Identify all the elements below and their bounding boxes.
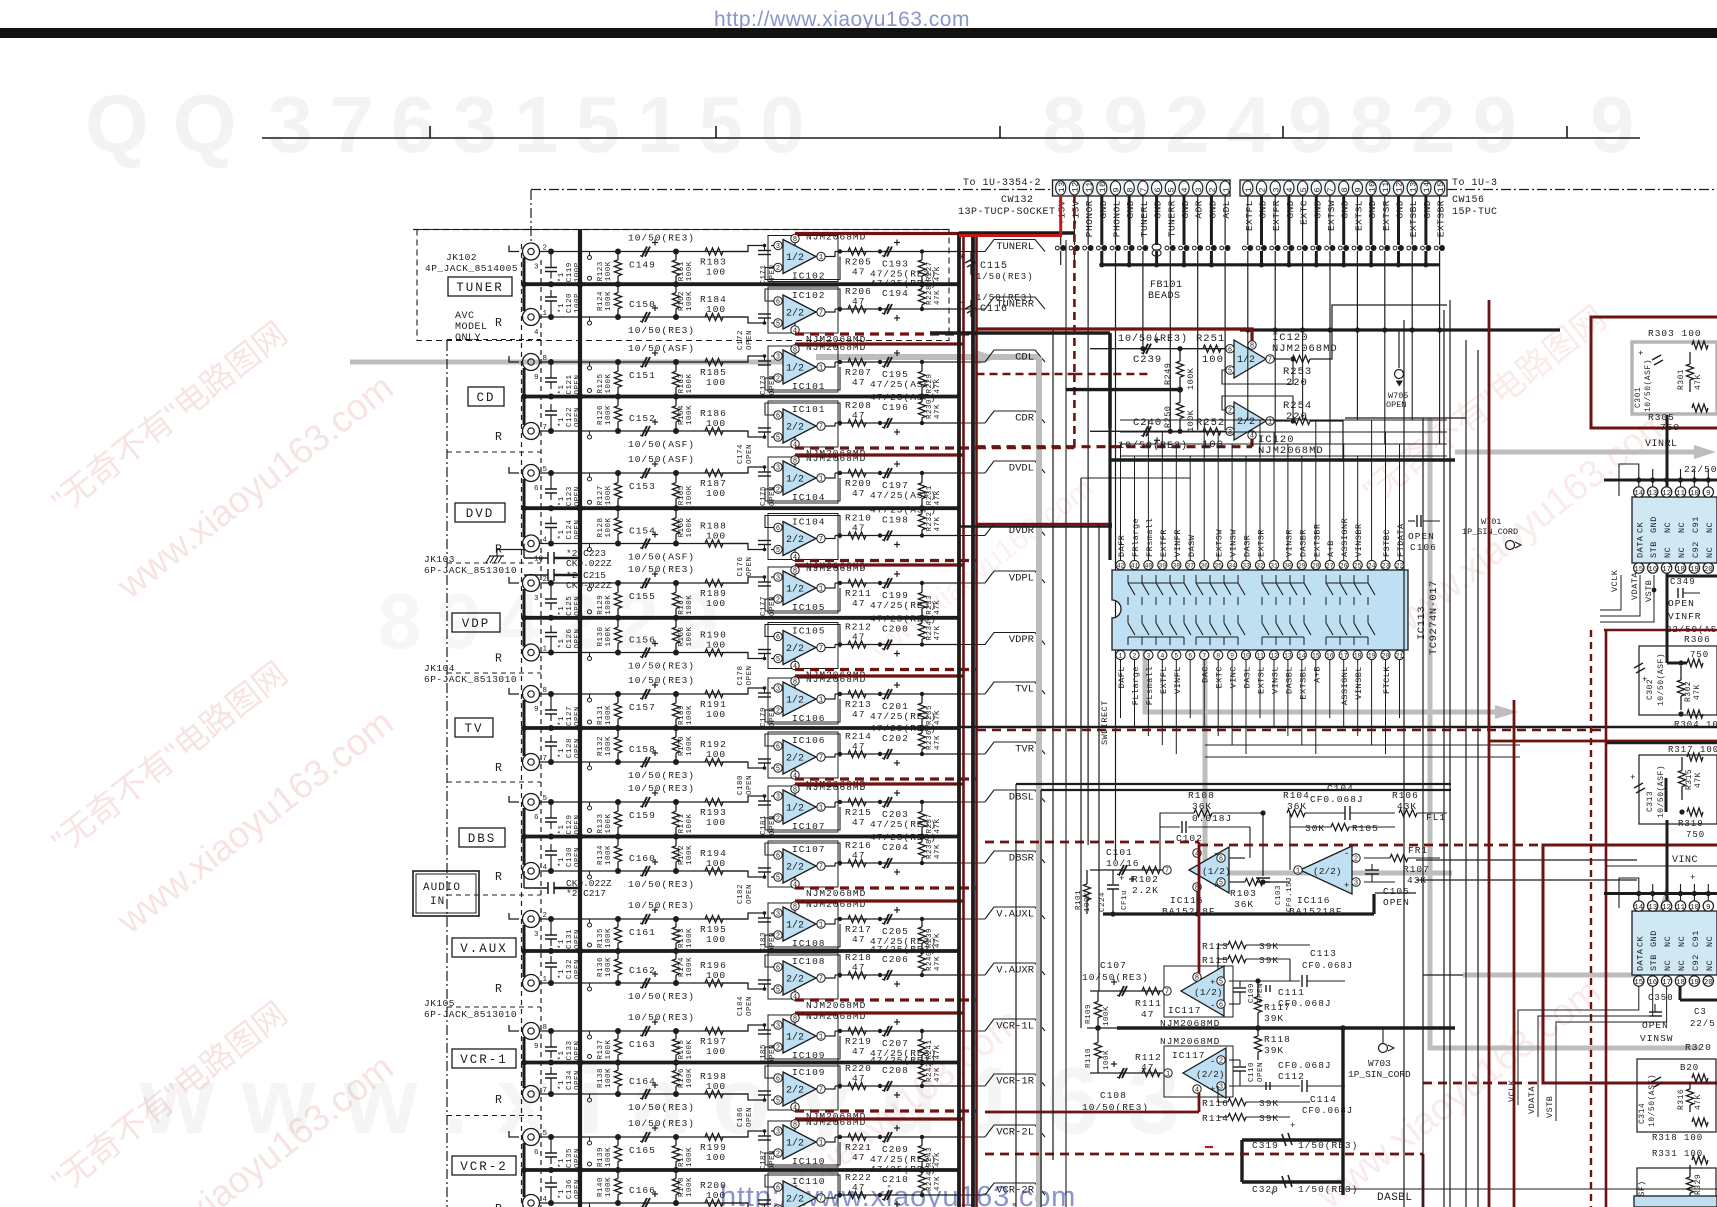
resistor R188 100 (705, 540, 723, 547)
wire feedback (765, 1066, 840, 1089)
node rIC1 pin 14 CK (1634, 487, 1644, 497)
svg-text:2/2: 2/2 (1237, 416, 1255, 428)
node IC113 pin 38 VINFR (1172, 560, 1181, 569)
wire rIC1 left loop (1619, 464, 1639, 496)
svg-text:36K: 36K (1287, 801, 1307, 812)
node CW156 pin 6 GND (1311, 181, 1321, 195)
capacitor C184 OPEN (758, 983, 771, 985)
svg-text:10/50(ASF): 10/50(ASF) (628, 343, 695, 354)
svg-text:C134: C134 (566, 1070, 574, 1090)
wire gray highlight IC113 path (1145, 620, 1495, 712)
resistor R301 47K (1689, 352, 1691, 364)
svg-text:C154: C154 (629, 526, 656, 537)
node CW156 pin 5 EXTC (1298, 181, 1308, 195)
svg-text:C160: C160 (629, 853, 656, 864)
wire supply rail maroon (795, 1011, 964, 1014)
capacitor C205 (884, 914, 889, 924)
resistor R109 100K (1097, 991, 1099, 1002)
svg-text:10/50(RE3): 10/50(RE3) (628, 879, 695, 890)
svg-text:8: 8 (793, 1016, 797, 1024)
svg-text:C314: C314 (1638, 1103, 1647, 1124)
svg-text:1/2: 1/2 (786, 1032, 804, 1044)
svg-text:18: 18 (1354, 653, 1362, 660)
svg-text:-: - (1344, 849, 1349, 859)
resistor R318 100 (1692, 1118, 1708, 1126)
node rIC2 pin 11 NC (1675, 901, 1685, 911)
svg-text:C133: C133 (566, 1040, 574, 1060)
svg-text:3: 3 (1194, 187, 1204, 193)
svg-text:R242: R242 (926, 1062, 934, 1082)
resistor R164 100K (675, 397, 677, 406)
svg-text:14: 14 (1634, 490, 1644, 498)
node net VCR-1L (959, 1030, 985, 1032)
svg-text:7: 7 (819, 310, 823, 318)
IC right volume 2 (1632, 911, 1717, 975)
svg-text:2/2: 2/2 (786, 753, 804, 765)
svg-text:FLsmall: FLsmall (1145, 666, 1155, 705)
wire feedback (765, 1175, 840, 1198)
svg-text:R133: R133 (597, 813, 605, 833)
wire output (830, 1137, 835, 1142)
wire jack ground (523, 700, 526, 756)
wire tunerr bus right (930, 331, 1110, 335)
resistor R240 47K (921, 951, 923, 955)
node IC113 pin 23 FSTBC (1381, 560, 1390, 569)
svg-text:6P-JACK_8513010: 6P-JACK_8513010 (424, 565, 517, 576)
svg-text:DATA: DATA (1635, 535, 1645, 558)
resistor R205 47 (848, 248, 866, 255)
svg-text:TUNERL: TUNERL (1139, 200, 1150, 237)
svg-text:47: 47 (852, 488, 865, 499)
svg-text:R128: R128 (597, 517, 605, 537)
jack DVD R (523, 535, 540, 552)
wire out2 right (1310, 421, 1343, 462)
svg-text:15: 15 (1312, 653, 1320, 660)
svg-text:NC: NC (1677, 522, 1687, 533)
node label V.AUX (452, 938, 516, 957)
wire supply rail maroon (795, 342, 964, 345)
svg-text:BEADS: BEADS (1148, 291, 1181, 302)
svg-text:2/2: 2/2 (786, 422, 804, 434)
svg-text:C129: C129 (566, 814, 574, 834)
svg-text:SWDIRECT: SWDIRECT (1100, 700, 1110, 745)
capacitor C105 OPEN (1371, 864, 1373, 870)
svg-text:C184: C184 (737, 996, 745, 1016)
svg-text:R170: R170 (678, 736, 686, 756)
capacitor C121 (550, 362, 552, 378)
resistor R230 47K (921, 397, 923, 402)
svg-text:30: 30 (1284, 563, 1292, 570)
svg-text:R134: R134 (597, 845, 605, 865)
wire ic117 out1 (1090, 990, 1163, 992)
capacitor C136 (550, 1187, 552, 1203)
capacitor C196 (884, 418, 889, 428)
capacitor C188 OPEN (758, 1203, 771, 1205)
svg-text:VDPR: VDPR (1009, 634, 1035, 646)
svg-text:C301: C301 (1634, 387, 1643, 408)
resistor R169 100K (675, 694, 677, 703)
capacitor C108 10/50(RE3) (1119, 1068, 1124, 1078)
svg-text:DATA: DATA (1635, 948, 1645, 971)
capacitor C160 (642, 866, 647, 876)
node rIC1 pin 15 DATA (1634, 563, 1644, 573)
op-amp IC117 1/2 NJM2068MD (1164, 966, 1233, 1017)
svg-text:5: 5 (1299, 187, 1309, 193)
svg-text:*1: *1 (558, 716, 566, 726)
wire opamp input (723, 688, 766, 694)
resistor R134 100K (617, 837, 619, 846)
svg-text:3: 3 (776, 575, 780, 583)
svg-text:IC113: IC113 (1416, 606, 1428, 640)
svg-text:C204: C204 (882, 842, 909, 853)
svg-text:3: 3 (1228, 429, 1232, 437)
svg-text:OPEN: OPEN (746, 1107, 754, 1127)
svg-text:47: 47 (852, 741, 865, 752)
svg-text:ASSIGNR: ASSIGNR (1340, 518, 1350, 557)
svg-text:NC: NC (1705, 960, 1715, 971)
wire right horizontals (1345, 417, 1466, 419)
resistor R106 43K (1399, 809, 1417, 816)
svg-text:100K: 100K (1103, 1050, 1111, 1070)
wire ADL down (1224, 265, 1226, 430)
svg-text:C151: C151 (629, 370, 656, 381)
wire vclk staircase 2 (1518, 986, 1639, 1105)
svg-text:8: 8 (1216, 653, 1220, 660)
svg-text:100: 100 (706, 304, 726, 315)
svg-text:FR1: FR1 (1408, 845, 1428, 856)
svg-text:C126: C126 (566, 628, 574, 648)
wire row signal (540, 652, 749, 654)
node IC113 pin 42 DAFR (1116, 560, 1125, 569)
svg-text:JK104: JK104 (424, 663, 455, 674)
svg-text:100P: 100P (574, 262, 582, 282)
svg-text:FLlarge: FLlarge (1131, 666, 1141, 705)
svg-text:+: + (1630, 773, 1635, 783)
svg-text:2: 2 (1228, 408, 1232, 416)
resistor R215 47 (848, 798, 866, 805)
svg-text:6: 6 (1228, 346, 1232, 354)
svg-text:*1: *1 (558, 417, 566, 427)
svg-text:EXTFR: EXTFR (1159, 529, 1169, 557)
svg-text:*1: *1 (558, 606, 566, 616)
svg-text:IC105: IC105 (792, 626, 826, 637)
node IC113 pin 35 EXTSW (1214, 560, 1223, 569)
svg-text:2: 2 (1354, 856, 1358, 864)
resistor R130 100K (617, 618, 619, 627)
svg-text:*1: *1 (558, 1050, 566, 1060)
wire output (830, 694, 835, 699)
svg-text:+: + (1270, 1189, 1275, 1199)
svg-text:R: R (495, 317, 502, 330)
svg-text:30K: 30K (1305, 823, 1325, 834)
resistor R185 100 (705, 358, 723, 365)
op-amp IC109 2/2 NJM2068MD (768, 1064, 838, 1110)
svg-text:750: 750 (1660, 422, 1680, 433)
node net VCR-1R (959, 1085, 985, 1087)
svg-text:15: 15 (1634, 979, 1644, 987)
wire row signal (540, 1093, 749, 1095)
capacitor C203 (884, 797, 889, 807)
wire output (830, 536, 835, 539)
capacitor C122 (550, 415, 552, 431)
op-amp IC120 1/2 NJM2068MD (1234, 340, 1266, 378)
wire row signal (540, 870, 749, 872)
wire row signal (540, 251, 749, 253)
node net CDR (959, 422, 985, 424)
jack V.AUX L (523, 911, 540, 928)
svg-text:*1: *1 (558, 969, 566, 979)
capacitor C153 (642, 468, 647, 478)
svg-text:IC101: IC101 (792, 381, 826, 392)
svg-text:QQ: QQ (85, 79, 261, 170)
node IC113 pin 27 A+B (1325, 560, 1334, 569)
svg-text:100: 100 (706, 970, 726, 981)
svg-text:+: + (959, 253, 965, 264)
jack TUNER L (523, 243, 540, 260)
svg-text:3: 3 (776, 794, 780, 802)
svg-text:2/2: 2/2 (786, 974, 804, 986)
svg-text:100K: 100K (686, 261, 694, 281)
svg-text:*1: *1 (558, 384, 566, 394)
svg-text:C113: C113 (1310, 948, 1337, 959)
resistor R210 47 (848, 532, 866, 539)
svg-text:6: 6 (776, 853, 780, 861)
op-amp IC108 1/2 NJM2068MD (768, 903, 838, 949)
wire mid crossing pair 2 (977, 523, 1112, 526)
svg-text:EXTSW: EXTSW (1326, 200, 1337, 231)
capacitor C313 10/50(ASF) (1634, 783, 1643, 788)
wire bundle to IC113 (1120, 419, 1447, 421)
resistor R207 47 (848, 358, 866, 365)
svg-text:EXTSR: EXTSR (1381, 200, 1392, 231)
svg-text:6: 6 (776, 299, 780, 307)
svg-text:3: 3 (1271, 187, 1281, 193)
node port L (509, 467, 519, 473)
svg-text:6: 6 (776, 525, 780, 533)
svg-text:DBSR: DBSR (1009, 853, 1035, 865)
wire supply rail maroon (795, 1109, 977, 1112)
wire opamp input (723, 431, 766, 437)
capacitor C178 OPEN (758, 653, 771, 655)
svg-text:5: 5 (1174, 653, 1178, 660)
svg-text:R114: R114 (1202, 1113, 1229, 1124)
svg-text:5: 5 (776, 435, 780, 443)
node port L (509, 246, 519, 252)
svg-text:R138: R138 (597, 1068, 605, 1088)
svg-text:C115: C115 (980, 261, 1008, 272)
wire opamp input (723, 762, 766, 768)
svg-text:25: 25 (1354, 563, 1362, 570)
svg-text:C116: C116 (980, 304, 1008, 315)
svg-text:39K: 39K (1259, 1113, 1279, 1124)
wire opamp input (723, 1025, 766, 1031)
wire TUNERL down (1142, 265, 1144, 349)
svg-text:100K: 100K (686, 626, 694, 646)
svg-text:R104: R104 (1283, 790, 1310, 801)
resistor R107 43K (1364, 857, 1390, 859)
svg-text:R320: R320 (1685, 1042, 1712, 1053)
svg-text:C157: C157 (629, 702, 656, 713)
op-amp IC120 2/2 NJM2068MD (1234, 402, 1266, 440)
resistor R238 47K (921, 837, 923, 842)
capacitor C181 OPEN (758, 800, 771, 802)
svg-text:8: 8 (793, 458, 797, 466)
svg-text:R101: R101 (1075, 890, 1083, 910)
svg-text:100: 100 (706, 817, 726, 828)
capacitor C180 OPEN (758, 762, 771, 764)
svg-text:47: 47 (852, 632, 865, 643)
node rIC1 pin 17 NC (1661, 563, 1671, 573)
capacitor C154 (642, 539, 647, 549)
svg-text:CDR: CDR (1015, 413, 1035, 425)
node CW156 pin 12 GND (1393, 181, 1403, 195)
node CW132 pin 10 GND (1097, 181, 1107, 195)
wire output (830, 423, 835, 426)
svg-text:VINC: VINC (1672, 855, 1698, 866)
svg-text:VINRL: VINRL (1645, 439, 1678, 450)
svg-text:R132: R132 (597, 736, 605, 756)
wire row signal (540, 982, 749, 984)
svg-text:C163: C163 (629, 1039, 656, 1050)
svg-text:To 1U-3354-2: To 1U-3354-2 (963, 178, 1041, 189)
node box R306 (1639, 646, 1717, 715)
svg-text:100K: 100K (1186, 367, 1196, 390)
svg-text:EXTFL: EXTFL (1244, 200, 1255, 231)
node rIC1 pin 16 STB (1648, 563, 1658, 573)
svg-text:1/50(RE3): 1/50(RE3) (976, 293, 1034, 303)
svg-text:C149: C149 (629, 260, 656, 271)
svg-text:FTCLK: FTCLK (1382, 666, 1392, 694)
capacitor C128 (550, 746, 552, 762)
svg-text:OPEN: OPEN (1668, 598, 1695, 609)
wire group ground bus (524, 726, 959, 730)
svg-text:DAC: DAC (1201, 666, 1211, 683)
svg-text:7: 7 (1326, 187, 1336, 193)
svg-text:11: 11 (1256, 653, 1264, 660)
svg-text:IC102: IC102 (792, 290, 826, 301)
svg-text:19: 19 (1690, 979, 1699, 987)
node CW156 pin 8 GND (1339, 181, 1349, 195)
resistor R221 47 (848, 1133, 866, 1140)
node rIC2 pin 15 DATA (1634, 976, 1644, 986)
resistor R189 100 (705, 579, 723, 586)
svg-text:VCR-2L: VCR-2L (996, 1127, 1034, 1139)
capacitor C215 CK0.022Z (524, 574, 548, 576)
node CW132 pin 8 GND (1124, 181, 1134, 195)
resistor R302 47K (1680, 666, 1682, 680)
svg-text:C109: C109 (1248, 983, 1256, 1003)
svg-text:VINFL: VINFL (1173, 666, 1183, 694)
wire group ground bus (524, 506, 959, 510)
node IC113 pin 4 EXTFL (1158, 650, 1167, 659)
resistor R218 47 (848, 971, 866, 978)
svg-text:VINSBL: VINSBL (1354, 666, 1364, 700)
capacitor C102 0.018J (1160, 827, 1180, 870)
svg-text:17: 17 (1662, 979, 1671, 987)
svg-text:376315150: 376315150 (268, 80, 821, 169)
svg-text:IC104: IC104 (792, 517, 826, 528)
wire fb2 (1222, 396, 1293, 421)
svg-text:22/50(: 22/50( (1684, 464, 1717, 475)
svg-text:R: R (495, 762, 502, 775)
resistor R140 100K (617, 1170, 619, 1179)
resistor R178 100K (675, 1170, 677, 1179)
resistor R116 39K (1228, 1098, 1246, 1105)
svg-text:1/2: 1/2 (786, 363, 804, 375)
svg-text:32: 32 (1256, 563, 1264, 570)
node CW156 pin 10 GND (1366, 181, 1376, 195)
svg-text:100K: 100K (686, 1147, 694, 1167)
svg-text:5: 5 (1167, 187, 1177, 193)
svg-text:20: 20 (1382, 653, 1390, 660)
jack VCR-1 R (523, 1086, 540, 1103)
node IC113 pin 37 DASW (1186, 560, 1195, 569)
svg-text:10/50(ASF): 10/50(ASF) (1657, 653, 1666, 706)
op-amp IC110 1/2 NJM2068MD (768, 1121, 838, 1167)
svg-text:C239: C239 (1133, 354, 1162, 366)
node CW156 pin 7 EXTSW (1325, 181, 1335, 195)
resistor R219 47 (848, 1027, 866, 1034)
resistor R192 100 (705, 758, 723, 765)
svg-text:100K: 100K (686, 928, 694, 948)
svg-text:41: 41 (1131, 563, 1139, 570)
svg-text:47: 47 (852, 817, 865, 828)
resistor R254 220 (1274, 420, 1290, 422)
svg-text:EXTC: EXTC (1215, 666, 1225, 688)
svg-text:40: 40 (1144, 563, 1152, 570)
svg-text:OPEN: OPEN (574, 847, 582, 867)
svg-text:100K: 100K (686, 736, 694, 756)
svg-text:1: 1 (819, 586, 823, 594)
svg-text:R171: R171 (678, 813, 686, 833)
svg-text:9: 9 (1590, 80, 1652, 169)
wire output (830, 362, 835, 367)
wire output (830, 754, 835, 757)
svg-text:C194: C194 (882, 288, 909, 299)
svg-text:IC108: IC108 (792, 938, 826, 949)
svg-text:OPEN: OPEN (1386, 400, 1406, 410)
capacitor C183 OPEN (758, 917, 771, 919)
svg-text:100K: 100K (1084, 892, 1092, 912)
svg-text:-: - (1210, 1057, 1215, 1067)
svg-text:10/50(RE3): 10/50(RE3) (628, 783, 695, 794)
svg-text:4: 4 (1250, 433, 1254, 441)
resistor R136 100K (617, 951, 619, 959)
wire jack ground (523, 925, 526, 977)
svg-text:IC101: IC101 (792, 404, 826, 415)
op-amp IC104 1/2 NJM2068MD (768, 457, 838, 503)
svg-text:3: 3 (776, 354, 780, 362)
wire feedback (765, 734, 840, 757)
node IC113 pin 28 EXTSBR (1311, 560, 1320, 569)
resistor R197 100 (705, 1027, 723, 1034)
resistor R228 47K (921, 284, 923, 288)
node IC113 pin 41 FRlarge (1130, 560, 1139, 569)
svg-text:CK: CK (1635, 935, 1645, 947)
svg-text:R237: R237 (926, 813, 934, 833)
resistor R118 39K (1257, 1028, 1259, 1036)
svg-text:R116: R116 (1202, 1098, 1229, 1109)
resistor R206 47 (848, 305, 866, 312)
svg-text:7: 7 (1165, 868, 1169, 876)
resistor R113 39K (1228, 941, 1246, 948)
wire supply bus maroon 1 (962, 235, 965, 1207)
svg-text:1: 1 (819, 476, 823, 484)
svg-text:47K: 47K (1694, 374, 1703, 390)
svg-text:IC102: IC102 (792, 271, 826, 282)
svg-text:C114: C114 (1310, 1094, 1337, 1105)
svg-text:C165: C165 (629, 1145, 656, 1156)
